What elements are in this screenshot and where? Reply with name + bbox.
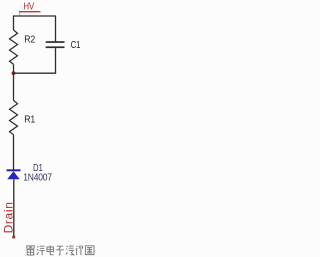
svg-text:R1: R1 bbox=[24, 114, 35, 125]
svg-text:Drain: Drain bbox=[1, 201, 15, 233]
svg-text:C1: C1 bbox=[71, 39, 81, 50]
capacitor C1 bbox=[46, 41, 65, 73]
watermark: gray CJK text (pseudo-glyphs) bbox=[27, 245, 94, 255]
wire: D1 anode down to Drain port bbox=[13, 179, 15, 238]
svg-text:1N4007: 1N4007 bbox=[23, 172, 52, 183]
power port HV bar bbox=[19, 11, 41, 12]
svg-text:HV: HV bbox=[23, 1, 35, 12]
wire: junction horizontal to C1 bottom branch bbox=[13, 72, 56, 74]
resistor R1 bbox=[10, 100, 18, 134]
diode D1 bbox=[7, 169, 21, 179]
junction dot bbox=[12, 71, 16, 75]
resistor R2 bbox=[10, 30, 18, 64]
wire: left drop from corner to R2 top bbox=[13, 16, 15, 30]
svg-text:R2: R2 bbox=[24, 34, 35, 45]
port Drain node bbox=[12, 236, 15, 239]
wire: R2 bottom through junction to R1 top bbox=[13, 64, 15, 100]
wire: top horizontal rail from left corner to C1 branch bbox=[13, 15, 56, 17]
power port HV stub bbox=[19, 12, 20, 16]
wire: R1 bottom to D1 cathode bbox=[13, 135, 15, 170]
wire: C1 top lead bbox=[55, 16, 57, 42]
